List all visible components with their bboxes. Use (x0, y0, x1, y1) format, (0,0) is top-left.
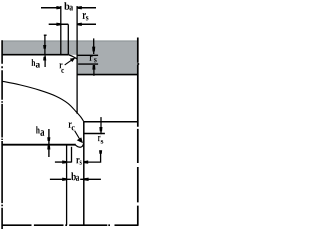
ba dimension line top (41, 7, 96, 9)
rc bottom arrowhead (77, 137, 83, 143)
ba top left arrowhead (56, 6, 60, 9)
rs bottom right arrowhead at seat (84, 160, 88, 163)
rs top left arrowhead (56, 23, 60, 26)
ha dimension bottom line (48, 129, 50, 144)
ha bottom lower arrowhead (47, 146, 50, 150)
ha top upper arrowhead (43, 45, 46, 49)
washer back face level line in gray (77, 54, 98, 56)
label s of rs (in gray) (94, 58, 97, 62)
housing bore line (2, 54, 68, 56)
rs bottom left arrowhead (62, 160, 66, 163)
bottom edge line (2, 224, 139, 226)
ha dimension top tick (44, 34, 47, 36)
label s of rs (top right) (86, 16, 89, 20)
shaft top line right of seat (84, 133, 105, 135)
sphered raceway arc (2, 81, 84, 122)
label a of ba (bottom) (76, 176, 79, 181)
label r of rs (in gray) (90, 55, 93, 60)
rs in-gray lower arrowhead (92, 65, 95, 70)
label r of rs (bottom center) (76, 158, 79, 163)
label b of ba (bottom) (71, 172, 76, 180)
label h of ha (top) (32, 59, 36, 66)
leader top arrowhead (99, 150, 102, 154)
housing section gray left plate (2, 42, 77, 55)
extension line V2 (67, 24, 69, 54)
housing block bottom edge (77, 74, 138, 76)
ha top lower arrowhead (43, 57, 46, 61)
ha bottom below-line tail (48, 146, 50, 158)
ba top right arrowhead (78, 6, 82, 9)
lower reference line in gray (78, 63, 98, 65)
centerline axis dash-dot (1, 40, 3, 229)
label b of ba (top) (64, 2, 69, 9)
shaft shoulder line (2, 144, 76, 146)
rc top leader line (65, 60, 73, 65)
rc top arrowhead (70, 58, 76, 62)
rs vertical dimension bottom right line (100, 117, 102, 134)
rs top right arrowhead (78, 23, 82, 26)
tick on right vertical at washer face level (137, 63, 139, 65)
label r of rs (bottom right) (98, 136, 101, 141)
housing gray top edge (2, 40, 138, 41)
label r of rc (bottom) (69, 122, 72, 128)
housing corner fillet rc top (68, 55, 77, 59)
extension line V3 above gray (76, 6, 78, 41)
extension line bottom V1 (66, 145, 68, 225)
ha bottom upper arrowhead (47, 137, 50, 141)
label s of rs (bottom right) (101, 140, 104, 144)
rs in-gray lower line (93, 65, 95, 76)
rs dimension line top with foot (49, 23, 96, 25)
label c of rc (top) (61, 69, 64, 73)
extension line bottom V2 (71, 147, 73, 163)
label r of rs (top right) (83, 13, 86, 19)
ba bottom left arrowhead (62, 178, 66, 181)
housing section gray right block (77, 42, 138, 75)
shaft seat face vertical (83, 122, 85, 225)
shaft washer top face line right (84, 121, 138, 123)
ha dimension top line (44, 35, 46, 55)
rs in-gray dimension upper line (93, 38, 95, 54)
label a of ha (bottom) (40, 130, 44, 136)
ba bottom right arrowhead (84, 178, 89, 181)
label r of rc (top) (59, 63, 62, 68)
label c of rc (bottom) (72, 126, 75, 130)
extension line V1 (60, 6, 62, 54)
ba dimension line bottom (50, 178, 101, 180)
rs bottom right piece with leader (84, 150, 101, 162)
rs vertical bottom right arrowhead (99, 127, 102, 131)
label s of rs (bottom center) (80, 161, 82, 165)
ha top below-line tail (44, 56, 46, 67)
rs bottom horizontal dimension line (55, 161, 72, 163)
rc bottom leader line (75, 131, 80, 139)
rs in-gray upper arrowhead (92, 47, 95, 52)
housing outer edge right vertical (137, 38, 139, 226)
label a of ba (top) (70, 6, 74, 11)
label h of ha (bottom) (36, 126, 40, 133)
label a of ha (top) (36, 63, 40, 68)
shaft corner relief groove rc bottom (76, 143, 84, 147)
housing block inner face and washer outer face (76, 41, 78, 114)
